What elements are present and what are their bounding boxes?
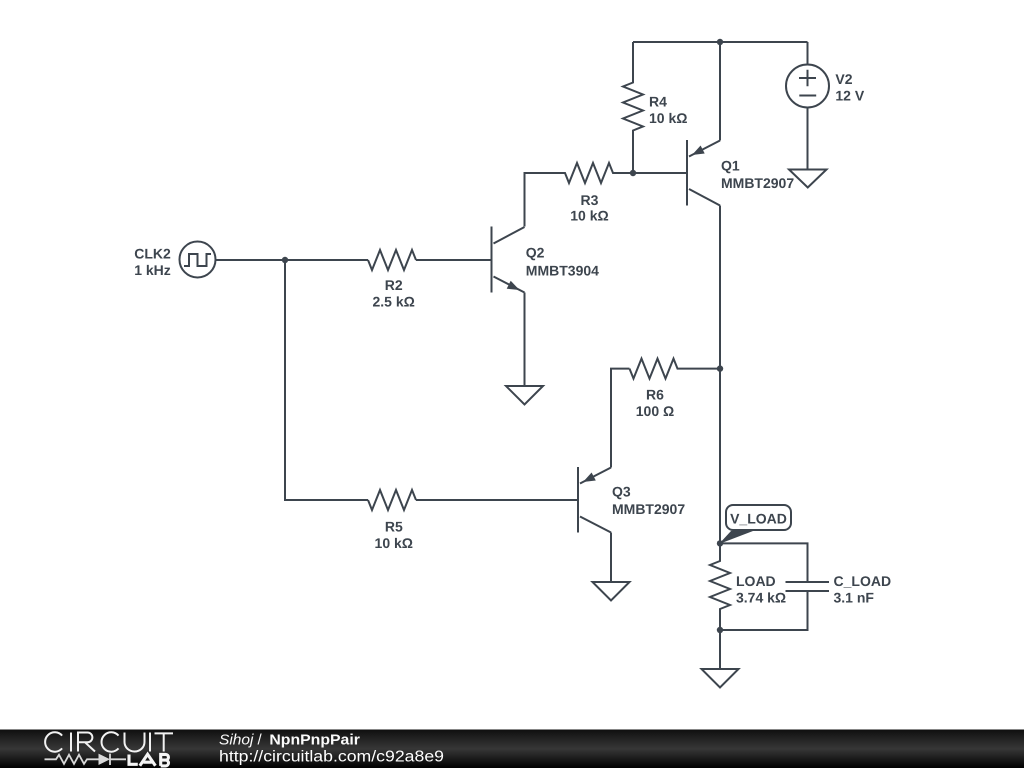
svg-text:3.74 kΩ: 3.74 kΩ [736, 589, 786, 605]
wire Q1 collector drop [719, 206, 721, 544]
svg-text:Q2: Q2 [526, 245, 545, 261]
wire R2 to Q2 base [416, 259, 491, 261]
wire R5 to Q3 base [416, 499, 577, 501]
svg-text:R2: R2 [385, 277, 403, 293]
resistor R4 [623, 42, 643, 173]
footer bar [0, 730, 1024, 768]
wire Q3 collector drop [610, 533, 612, 582]
resistor R5 [368, 490, 416, 510]
net flag V_LOAD [719, 505, 791, 544]
logo resistor-diode doodle [45, 754, 127, 765]
resistor R3 [525, 163, 634, 227]
svg-text:V2: V2 [835, 71, 852, 87]
svg-text:MMBT2907: MMBT2907 [721, 175, 794, 191]
logo CIRCUIT letters [45, 732, 173, 751]
svg-text:R3: R3 [581, 192, 599, 208]
wire V_LOAD to C_LOAD top [720, 543, 808, 582]
svg-text:MMBT3904: MMBT3904 [526, 262, 599, 278]
wire top rail [633, 41, 808, 43]
wire Q2 emitter drop [524, 293, 526, 387]
ground under load [702, 669, 739, 688]
node load bottom junction [717, 627, 723, 633]
svg-text:NpnPnpPair: NpnPnpPair [269, 732, 360, 749]
wire CLK2 to R2 [216, 259, 369, 261]
svg-text:Q3: Q3 [612, 483, 631, 499]
svg-text:MMBT2907: MMBT2907 [612, 501, 685, 517]
svg-text:CLK2: CLK2 [134, 245, 171, 261]
svg-text:R6: R6 [646, 386, 664, 402]
svg-text:10 kΩ: 10 kΩ [375, 535, 413, 551]
svg-text:R5: R5 [385, 518, 403, 534]
ground under V2 [789, 170, 827, 188]
voltage source V2 [786, 42, 829, 169]
svg-text:2.5 kΩ: 2.5 kΩ [373, 294, 415, 310]
svg-text:3.1 nF: 3.1 nF [834, 589, 875, 605]
ground under Q2 [506, 386, 543, 405]
node R6/Q1 collector junction [717, 365, 723, 371]
resistor LOAD [710, 543, 730, 630]
wire Q1 base [633, 172, 687, 174]
wire Q3 emitter riser [611, 369, 630, 468]
clock source CLK2 [180, 242, 216, 278]
svg-text:V_LOAD: V_LOAD [730, 510, 787, 526]
wire left branch drop [285, 260, 368, 500]
svg-text:10 kΩ: 10 kΩ [649, 110, 687, 126]
svg-text:C_LOAD: C_LOAD [834, 573, 892, 589]
svg-text:1 kHz: 1 kHz [134, 262, 171, 278]
ground under Q3 [593, 582, 630, 601]
svg-text:R4: R4 [649, 93, 667, 109]
node top rail junction [717, 39, 723, 45]
svg-text:10 kΩ: 10 kΩ [570, 208, 608, 224]
node CLK2 branch junction [282, 257, 288, 263]
svg-text:12 V: 12 V [835, 87, 864, 103]
capacitor C_LOAD [720, 582, 829, 630]
svg-text:http://circuitlab.com/c92a8e9: http://circuitlab.com/c92a8e9 [219, 749, 444, 766]
svg-text:Sihoj: Sihoj [219, 732, 254, 749]
wire Q1 emitter riser [719, 42, 721, 141]
svg-text:LOAD: LOAD [736, 573, 776, 589]
resistor R2 [368, 250, 416, 270]
svg-text:100 Ω: 100 Ω [636, 403, 674, 419]
node R3/R4/Q1 base junction [630, 170, 636, 176]
transistor Q2 [492, 227, 525, 293]
transistor Q1 [687, 140, 720, 206]
wire load bottom to ground [719, 630, 721, 669]
svg-text:Q1: Q1 [721, 157, 740, 173]
transistor Q3 [578, 467, 611, 533]
node V_LOAD junction [717, 540, 723, 546]
resistor R6 [630, 359, 721, 379]
logo LAB text [129, 754, 169, 766]
